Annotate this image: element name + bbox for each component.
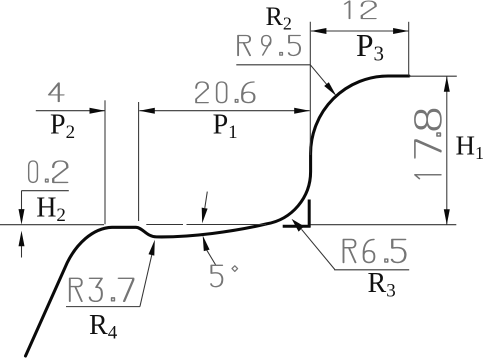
value text 17.8 for dimension H1 (rotated) bbox=[415, 110, 441, 178]
svg-text:R2: R2 bbox=[266, 2, 292, 34]
svg-text:R4: R4 bbox=[89, 310, 118, 344]
value text 5 degrees angle bbox=[211, 265, 238, 286]
svg-text:H2: H2 bbox=[36, 192, 66, 226]
reference line at top of H1 dimension bbox=[409, 75, 457, 77]
value text R9.5 for radius R2 bbox=[238, 36, 300, 56]
underline of R9.5 label bbox=[236, 64, 310, 66]
reference line left side bbox=[0, 224, 104, 226]
arrowhead 5 degree at reference line bbox=[202, 208, 208, 224]
leader line from 5 degree note to profile bbox=[206, 249, 216, 265]
profile curve of part cross-section bbox=[26, 76, 409, 356]
leader line from R9.5 label to arc R2 bbox=[310, 65, 333, 92]
centerline dash 2 bbox=[187, 224, 267, 226]
dimension line P1 (value 20.6) bbox=[139, 110, 309, 112]
dimension line P2 (value 4) bbox=[36, 110, 105, 112]
H2 dimension line lower tail bbox=[21, 245, 23, 258]
right-angle symbol at R3 fillet bbox=[283, 200, 311, 228]
leader line from R3.7 label to dip radius R4 bbox=[140, 254, 152, 307]
dimension line P3 (value 12) bbox=[311, 30, 409, 32]
leader line from R6.5 label to fillet R3 bbox=[302, 229, 335, 269]
arrowhead P3 right bbox=[393, 28, 409, 34]
value text 20.6 for dimension P1 bbox=[196, 82, 254, 103]
arrowhead P2 right bbox=[90, 108, 106, 114]
arrowhead of R6.5 leader at fillet bbox=[292, 219, 305, 232]
arrowhead 5 degree at profile line bbox=[203, 235, 210, 251]
dimension line H1 (value 17.8) bbox=[446, 76, 448, 224]
arrowhead P1 right bbox=[294, 108, 310, 114]
extension line at x=310 for dimensions 12 and 20.6 bbox=[309, 22, 311, 155]
H2 dimension line upper tail bbox=[21, 191, 23, 212]
svg-text:P3: P3 bbox=[356, 28, 384, 66]
arrowhead of R3.7 leader at dip bbox=[149, 240, 155, 256]
extension line left of P2 dimension bbox=[104, 100, 106, 224]
svg-text:H1: H1 bbox=[456, 131, 485, 164]
underline of R3.7 label bbox=[66, 306, 140, 308]
underline of R6.5 label bbox=[334, 269, 409, 271]
leader tail of 5 degree upper arrow bbox=[205, 192, 208, 208]
value text R3.7 for radius R4 bbox=[70, 278, 133, 301]
underline of 0.2 label bbox=[21, 190, 68, 192]
value text 0.2 for dimension H2 bbox=[29, 161, 68, 182]
arrowhead H2 upper bbox=[19, 209, 25, 225]
arrowhead H1 bottom bbox=[444, 209, 450, 225]
value text 4 for dimension P2 bbox=[49, 83, 64, 102]
arrowhead P1 left bbox=[139, 108, 155, 114]
arrowhead H1 top bbox=[444, 76, 450, 92]
extension line right of P3 dimension bbox=[408, 22, 410, 76]
arrowhead of R9.5 leader on arc R2 bbox=[324, 82, 336, 96]
svg-text:P1: P1 bbox=[213, 110, 238, 144]
value text R6.5 for radius R3 bbox=[344, 240, 406, 263]
arrowhead H2 lower bbox=[19, 231, 25, 247]
svg-text:R3: R3 bbox=[368, 268, 396, 302]
value text 12 for dimension P3 bbox=[345, 1, 376, 19]
arrowhead P3 left bbox=[311, 28, 327, 34]
baseline reference line right side bbox=[311, 224, 457, 226]
extension line between P2 and P1 bbox=[138, 102, 140, 221]
svg-text:P2: P2 bbox=[50, 109, 75, 143]
centerline dash 1 bbox=[146, 224, 183, 226]
